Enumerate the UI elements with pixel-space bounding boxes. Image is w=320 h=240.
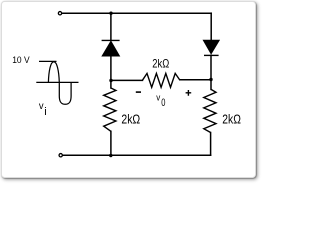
svg-text:i: i bbox=[44, 106, 46, 118]
source waveform axis line bbox=[36, 81, 78, 83]
wire left branch upper (junction to diode D1 cathode) bbox=[110, 13, 112, 40]
wire left branch (D1 anode down to mid junction and resistor) bbox=[110, 56, 112, 88]
wire middle right (R2 to right branch) bbox=[180, 79, 211, 81]
wire bottom horizontal bbox=[63, 154, 211, 156]
svg-text:2kΩ: 2kΩ bbox=[152, 56, 169, 70]
svg-text:2kΩ: 2kΩ bbox=[121, 112, 140, 126]
wire right vertical below resistor with bottom corner bbox=[210, 133, 212, 156]
node junction mid-right (v0 plus node) bbox=[209, 78, 212, 81]
terminal top-left (open circle) bbox=[58, 12, 61, 15]
wire bottom + left vertical below resistor bbox=[110, 131, 112, 155]
resistor R1 2k (left vertical) bbox=[104, 88, 116, 131]
terminal bottom-left (open circle) bbox=[59, 154, 62, 157]
diode D2 (right, cathode down) bbox=[203, 40, 219, 55]
resistor R3 2k (right vertical) bbox=[204, 89, 216, 132]
wire right branch (D2 cathode to mid junction to resistor top) bbox=[210, 55, 212, 89]
figure frame bbox=[1, 1, 256, 178]
diode D1 (left, cathode up) bbox=[102, 40, 120, 56]
svg-text:2kΩ: 2kΩ bbox=[222, 112, 241, 126]
label minus sign (v0 polarity) bbox=[136, 91, 141, 93]
resistor R2 2k (horizontal, middle) bbox=[142, 73, 179, 87]
wire top horizontal bbox=[62, 12, 211, 14]
source waveform peak level line bbox=[39, 60, 57, 62]
node junction top of D1 bbox=[109, 12, 112, 15]
node junction mid-left (v0 minus node) bbox=[109, 79, 112, 82]
svg-text:v: v bbox=[156, 93, 160, 104]
source waveform positive half-cycle bbox=[48, 62, 59, 83]
svg-text:0: 0 bbox=[161, 97, 165, 109]
wire middle horizontal (mid junction to resistor R2) bbox=[111, 79, 142, 81]
wire right branch upper (corner down to diode D2 anode) bbox=[210, 13, 212, 40]
label plus sign (v0 polarity) bbox=[186, 90, 192, 96]
svg-text:10 V: 10 V bbox=[12, 55, 30, 66]
node junction bottom bbox=[109, 154, 112, 157]
source waveform negative half-cycle bbox=[59, 82, 71, 104]
svg-text:v: v bbox=[39, 101, 44, 112]
